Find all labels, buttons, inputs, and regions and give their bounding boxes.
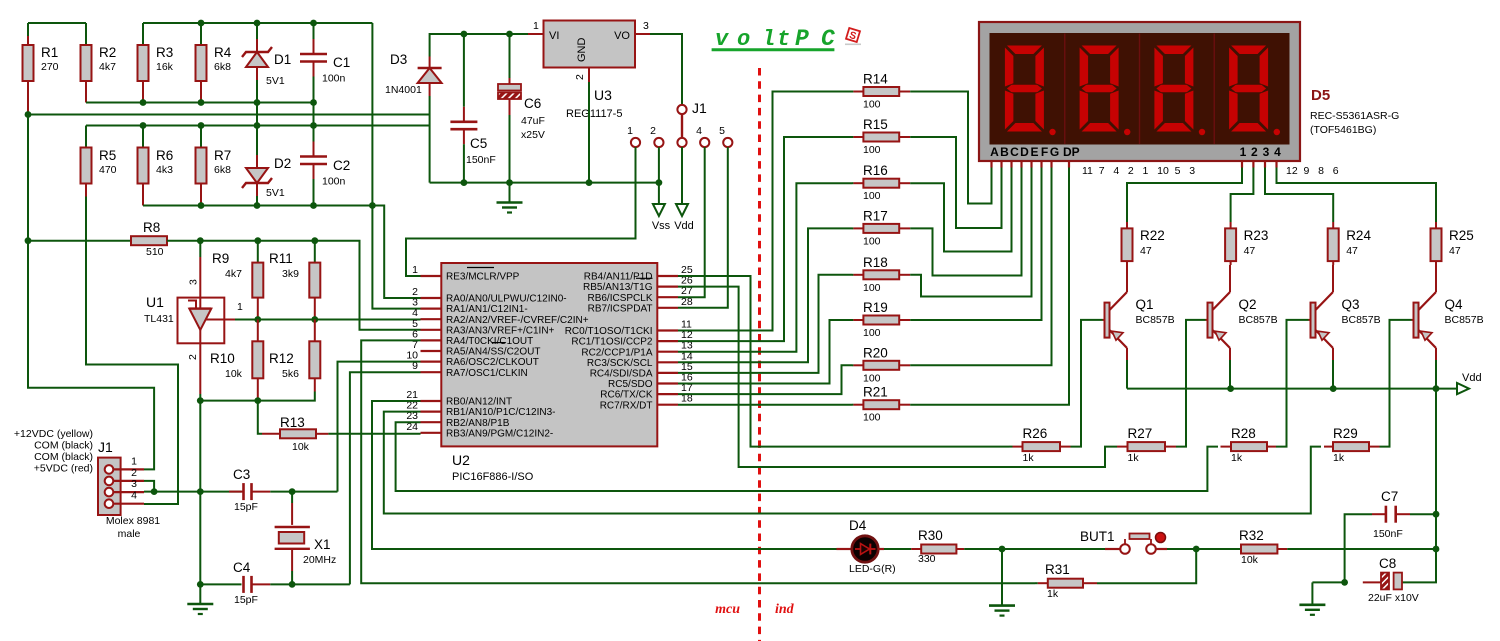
wire: R8 row right to RA3 pin5 <box>167 241 421 330</box>
svg-text:2: 2 <box>1251 145 1258 159</box>
svg-text:+5VDC (red): +5VDC (red) <box>34 463 93 475</box>
svg-text:R9: R9 <box>212 251 229 266</box>
svg-text:100: 100 <box>863 282 881 294</box>
svg-text:RB1/AN10/P1C/C12IN3-: RB1/AN10/P1C/C12IN3- <box>446 407 556 418</box>
svg-text:RB3/AN9/PGM/C12IN2-: RB3/AN9/PGM/C12IN2- <box>446 428 553 439</box>
svg-text:C8: C8 <box>1379 556 1396 571</box>
svg-text:D4: D4 <box>849 518 867 533</box>
node: R10 bottom junction <box>254 397 261 404</box>
resistor R30 <box>908 548 911 550</box>
wire: R27 to Q2 base <box>1176 320 1206 447</box>
wire: R25 bottom to Q4 collector <box>1435 261 1437 265</box>
wire: RC0 pin11 to R14 <box>678 92 852 331</box>
resistor R9 <box>252 263 263 298</box>
svg-text:COM (black): COM (black) <box>34 451 93 463</box>
svg-text:4: 4 <box>1274 145 1281 159</box>
svg-text:RA3/AN3/VREF+/C1IN+: RA3/AN3/VREF+/C1IN+ <box>446 325 555 336</box>
connector J1 ICSP top pin <box>677 105 686 114</box>
connector J1 pin 2 <box>654 138 663 147</box>
svg-text:R27: R27 <box>1128 426 1153 441</box>
svg-text:Vdd: Vdd <box>674 220 694 232</box>
node: COM at U1 anode column <box>197 488 204 495</box>
svg-text:100: 100 <box>863 144 881 156</box>
pin 9 stub U2 left <box>421 371 442 373</box>
svg-text:R17: R17 <box>863 208 888 223</box>
capacitor C8 electrolytic <box>1363 573 1402 590</box>
wire: R2 top lead <box>85 23 87 45</box>
svg-text:Q3: Q3 <box>1342 297 1360 312</box>
resistor R8 <box>131 236 167 245</box>
resistor R18 <box>852 274 853 276</box>
display segment letters ABCDEFG DP <box>990 145 1080 159</box>
logo red emblem <box>845 27 861 44</box>
wire: node-A bus y=125.5 <box>86 125 430 127</box>
transistor Q4 BC857B <box>1412 265 1437 360</box>
wire: RC6 pin17 to R20 <box>678 365 852 394</box>
wire: segment E to R18 <box>910 168 1031 297</box>
resistor R13 <box>262 433 280 435</box>
svg-text:16k: 16k <box>156 61 174 73</box>
wire: Molex pin2 to COM row <box>144 481 154 492</box>
wire: U1 anode column down to COM row <box>199 401 201 492</box>
overline MCLR on pin1 <box>467 267 494 269</box>
node: C5 bottom <box>461 179 468 186</box>
svg-text:DP: DP <box>1063 145 1080 159</box>
connector J1 pin 5 <box>723 138 732 147</box>
wire: R9 bottom lead <box>257 298 259 320</box>
svg-text:male: male <box>118 528 141 540</box>
pin 6 stub U2 left <box>421 339 442 341</box>
svg-text:R16: R16 <box>863 163 888 178</box>
resistor R29 <box>1324 446 1333 448</box>
wire: J1 link (red) <box>681 114 683 138</box>
pin 16 stub U2 right <box>657 382 678 384</box>
node: R3 bottom <box>140 99 147 106</box>
svg-text:100: 100 <box>863 235 881 247</box>
node: R7 top on node-A <box>198 122 205 129</box>
svg-text:C6: C6 <box>524 96 541 111</box>
svg-text:BC857B: BC857B <box>1445 314 1484 326</box>
svg-text:100n: 100n <box>322 73 346 85</box>
pin 2 stub U2 left <box>421 297 442 299</box>
svg-text:20MHz: 20MHz <box>303 554 336 566</box>
wire: node-A row y=102.5 (R2..C1 bottoms) <box>86 102 314 104</box>
resistor R12 <box>309 341 320 378</box>
svg-text:C1: C1 <box>333 55 350 70</box>
svg-text:5k6: 5k6 <box>282 368 299 380</box>
svg-text:47uF: 47uF <box>521 115 545 127</box>
transistor Q1 BC857B <box>1103 265 1128 360</box>
wire: segment C to R16 <box>910 168 1011 252</box>
power Vss arrow <box>653 204 665 216</box>
connector J1 Molex body <box>98 458 121 515</box>
node: U1 cathode at R8 row <box>197 237 204 244</box>
svg-text:R4: R4 <box>214 45 232 60</box>
svg-text:R21: R21 <box>863 385 888 400</box>
svg-text:270: 270 <box>41 61 59 73</box>
svg-text:J1: J1 <box>98 439 113 455</box>
pin 18 stub U2 right <box>657 404 678 406</box>
wire: COM row with C3 <box>144 491 242 493</box>
wire: R11 top lead <box>314 241 316 263</box>
svg-text:RC6/TX/CK: RC6/TX/CK <box>600 390 653 401</box>
svg-text:l: l <box>762 27 775 52</box>
svg-text:4: 4 <box>696 125 702 137</box>
ground symbol bottom left <box>199 584 201 604</box>
svg-text:D3: D3 <box>390 52 407 67</box>
svg-text:R8: R8 <box>143 220 160 235</box>
node: ground tap at R30/BUT1 <box>999 546 1006 553</box>
pin 27 stub U2 right <box>657 296 678 298</box>
wire: RA4 pin6 to R31 row <box>361 340 1035 583</box>
wire: RC4 pin15 to R18 <box>678 275 852 373</box>
svg-text:R20: R20 <box>863 345 888 360</box>
wire: RC5 pin16 to R19 <box>678 320 852 384</box>
svg-text:U2: U2 <box>452 452 470 468</box>
svg-text:1: 1 <box>627 125 633 137</box>
connector J1 pin 4 <box>700 138 709 147</box>
node: C2 bottom on bus <box>310 202 317 209</box>
IC U2 PIC16F886 body <box>441 263 657 446</box>
wire: U1 anode column to C4 row <box>199 492 201 585</box>
svg-text:3k9: 3k9 <box>282 268 299 280</box>
node: X1 bottom junction <box>289 581 296 588</box>
node: +12V at R1 bottom <box>25 111 32 118</box>
pin 3 stub U2 left <box>421 308 442 310</box>
wire: U3 GND to ground row <box>588 82 590 183</box>
overline T1G on pin26 <box>636 277 653 279</box>
pin 13 stub U2 right <box>657 351 678 353</box>
wire: R3 top lead <box>142 23 144 45</box>
svg-text:RC3/SCK/SCL: RC3/SCK/SCL <box>587 358 653 369</box>
svg-text:47: 47 <box>1244 245 1256 257</box>
svg-text:C3: C3 <box>233 467 250 482</box>
wire: digit 2 pin to R23 <box>1231 168 1254 223</box>
svg-text:R18: R18 <box>863 255 888 270</box>
svg-text:RA1/AN1/C12IN1-: RA1/AN1/C12IN1- <box>446 304 528 315</box>
node: D2 bottom on bus <box>254 202 261 209</box>
diode D1 (zener 5V1) <box>256 23 258 39</box>
svg-text:3: 3 <box>1263 145 1270 159</box>
svg-text:TL431: TL431 <box>144 313 174 325</box>
svg-text:C: C <box>821 26 835 52</box>
svg-text:47: 47 <box>1449 245 1461 257</box>
node: COM at pin2 join <box>151 488 158 495</box>
wire: U1 ref row to RA2 pin4 <box>235 319 421 321</box>
svg-text:1k: 1k <box>1128 452 1140 464</box>
wire: R7 top lead <box>200 126 202 148</box>
svg-text:RB7/ICSPDAT: RB7/ICSPDAT <box>588 303 653 314</box>
crystal X1 <box>275 492 310 585</box>
resistor R6 <box>138 148 149 184</box>
svg-text:C: C <box>1010 145 1019 159</box>
svg-text:P: P <box>795 26 809 52</box>
svg-text:R3: R3 <box>156 45 173 60</box>
resistor R32 <box>1277 548 1287 550</box>
svg-text:R10: R10 <box>210 351 235 366</box>
wire: +12V left column x=28 down to Molex pin1 <box>28 115 154 470</box>
node: BUT1/R31/R32 junction <box>1193 546 1200 553</box>
pin 5 stub U2 left <box>421 329 442 331</box>
svg-text:RA2/AN2/VREF-/CVREF/C2IN+: RA2/AN2/VREF-/CVREF/C2IN+ <box>446 315 589 326</box>
wire: R12 bottom lead <box>314 378 316 391</box>
svg-text:1N4001: 1N4001 <box>385 84 422 96</box>
node: C1 bottom <box>310 99 317 106</box>
svg-text:COM (black): COM (black) <box>34 440 93 452</box>
diode D3 1N4001 <box>429 34 431 57</box>
node: Vdd column at R32 row <box>1433 546 1440 553</box>
svg-text:F: F <box>1041 145 1048 159</box>
wire: R24 bottom to Q3 collector <box>1332 261 1334 265</box>
svg-text:BC857B: BC857B <box>1342 314 1381 326</box>
svg-text:t: t <box>777 27 790 52</box>
wire: R2 bottom lead <box>85 81 87 103</box>
wire: C7 right to Vdd column <box>1410 513 1436 515</box>
svg-text:5V1: 5V1 <box>266 75 285 87</box>
resistor R10 <box>252 341 263 378</box>
svg-text:RC0/T1OSO/T1CKI: RC0/T1OSO/T1CKI <box>565 326 653 337</box>
wire: RB1 pin22 to R29 feed row <box>384 412 1321 514</box>
wire: R22 bottom to Q1 collector <box>1126 261 1128 265</box>
node: X1 top junction <box>289 488 296 495</box>
svg-text:o: o <box>737 27 750 52</box>
svg-text:2: 2 <box>574 74 586 80</box>
wire: R7 bottom lead <box>200 184 202 206</box>
resistor R16 <box>852 182 853 184</box>
wire: R5 bottom staircase to Molex pin4 (+5V) <box>85 184 87 197</box>
wire: R13 feed from R10 node <box>258 401 262 434</box>
svg-text:E: E <box>1030 145 1038 159</box>
resistor R15 <box>852 136 853 138</box>
node: R9-R10 junction <box>254 316 261 323</box>
connector J1 Molex pin 2 <box>105 477 114 486</box>
wire: R4 bottom lead <box>200 81 202 103</box>
pin 11 stub U2 right <box>657 329 678 331</box>
resistor R7 <box>196 148 207 184</box>
svg-text:VI: VI <box>549 30 559 42</box>
svg-text:1: 1 <box>412 264 418 276</box>
power Vdd arrow right <box>1457 383 1469 394</box>
op-amp U1 TL431 shunt reference <box>144 241 243 401</box>
svg-text:x25V: x25V <box>521 129 545 141</box>
svg-text:R29: R29 <box>1333 426 1358 441</box>
connector J1 pin 3 <box>677 138 686 147</box>
node: R7 bottom on bus <box>198 202 205 209</box>
node: Vdd column at C7 row <box>1433 511 1440 518</box>
node: R9 top at R8 row <box>254 237 261 244</box>
transistor Q3 BC857B <box>1309 265 1334 360</box>
svg-text:6k8: 6k8 <box>214 61 231 73</box>
svg-text:RB4/AN11/P1D: RB4/AN11/P1D <box>584 272 653 283</box>
svg-text:R13: R13 <box>280 415 305 430</box>
wire: digit 3 pin to R24 <box>1265 168 1333 223</box>
svg-text:REC-S5361ASR-G: REC-S5361ASR-G <box>1310 110 1399 122</box>
svg-text:100: 100 <box>863 99 881 111</box>
wire: junction down to R31 <box>1097 549 1196 583</box>
resistor R5 <box>81 148 92 184</box>
pin 28 stub U2 right <box>657 307 678 309</box>
wire: RC3 pin14 to R17 <box>678 228 852 362</box>
wire: RB0 pin21 to LED D4 row <box>372 401 852 549</box>
wire: R30 to BUT1 <box>964 548 1105 550</box>
svg-text:U1: U1 <box>146 294 164 310</box>
wire: J1 pin3 to Vdd <box>681 147 683 204</box>
wire: RC7 pin18 to R21 row <box>678 404 852 406</box>
wire: R11 bottom lead <box>314 298 316 320</box>
node: C1 top junction <box>310 20 317 27</box>
wire: R9 top lead <box>257 241 259 263</box>
svg-text:Vdd: Vdd <box>1462 372 1482 384</box>
svg-text:100: 100 <box>863 372 881 384</box>
wire: digit 4 pin to R25 <box>1277 168 1437 223</box>
resistor R26 <box>1009 446 1013 448</box>
wire: segment DP to R21 <box>910 168 1069 405</box>
svg-text:100: 100 <box>863 327 881 339</box>
node: Vss column at row <box>656 179 663 186</box>
wire: segment D to R17 <box>910 168 1021 276</box>
wire: R13 row to RB3 pin24 <box>328 433 420 435</box>
svg-text:C2: C2 <box>333 158 350 173</box>
svg-text:330: 330 <box>918 553 936 565</box>
power Vdd arrow <box>676 204 688 216</box>
wire: J1 pin5 to RB7 pin28 <box>678 147 728 308</box>
node: D1 bottom <box>254 99 261 106</box>
wire: R29 to Q4 base <box>1380 320 1412 447</box>
svg-text:12 9 8 6: 12 9 8 6 <box>1286 165 1339 177</box>
connector J1 Molex pin 3 <box>105 488 114 497</box>
svg-text:1: 1 <box>533 20 539 32</box>
svg-text:A: A <box>990 145 999 159</box>
svg-text:X1: X1 <box>314 537 331 552</box>
svg-text:1: 1 <box>237 301 243 313</box>
svg-text:RA5/AN4/SS/C2OUT: RA5/AN4/SS/C2OUT <box>446 347 540 358</box>
display digit 1 segments <box>1005 46 1056 136</box>
wire: R6 bottom lead <box>142 184 144 206</box>
node: C5 top junction <box>461 31 468 38</box>
transistor Q2 BC857B <box>1206 265 1231 360</box>
wire: R6 top lead <box>142 126 144 148</box>
svg-text:47: 47 <box>1346 245 1358 257</box>
node: +12V at R8 row <box>25 237 32 244</box>
pin 21 stub U2 left <box>421 400 442 402</box>
svg-text:15pF: 15pF <box>234 594 258 606</box>
wire: R10 bottom lead <box>257 378 259 400</box>
svg-text:28: 28 <box>681 296 693 308</box>
node: Q3 emitter at Vdd bus <box>1330 385 1337 392</box>
node: R4 top junction <box>198 20 205 27</box>
wire: node-X bottom bus y=205.5 to RA0 pin2 <box>143 206 421 299</box>
resistor R27 <box>1117 446 1128 448</box>
resistor R20 <box>852 364 853 366</box>
svg-text:R11: R11 <box>269 251 293 266</box>
wire: segment B to R15 <box>910 137 1001 228</box>
resistor R1 <box>27 23 29 36</box>
switch BUT1 <box>1105 533 1167 554</box>
svg-text:R7: R7 <box>214 148 231 163</box>
svg-text:1: 1 <box>1240 145 1247 159</box>
capacitor C5 <box>463 34 465 107</box>
svg-text:+12VDC (yellow): +12VDC (yellow) <box>14 428 93 440</box>
pin 14 stub U2 right <box>657 361 678 363</box>
svg-text:1k: 1k <box>1023 452 1035 464</box>
svg-text:R12: R12 <box>269 351 294 366</box>
wire: Vdd bus <box>1127 388 1457 390</box>
wire: R5 top lead <box>85 126 87 148</box>
svg-text:R24: R24 <box>1346 228 1371 243</box>
svg-text:Q1: Q1 <box>1136 297 1154 312</box>
svg-text:R28: R28 <box>1231 426 1256 441</box>
svg-text:3: 3 <box>131 478 137 490</box>
svg-text:R1: R1 <box>41 45 58 60</box>
pin 25 stub U2 right <box>657 275 678 277</box>
wire: D3 anode to +12V bus end / node-A link down to GND row <box>429 96 431 183</box>
wire: ground row under regulator <box>430 182 659 184</box>
svg-text:RA7/OSC1/CLKIN: RA7/OSC1/CLKIN <box>446 368 528 379</box>
svg-text:D5: D5 <box>1311 87 1330 104</box>
svg-text:B: B <box>1000 145 1009 159</box>
wire: RB5 pin26 to R27 feed <box>678 287 1117 467</box>
svg-text:6k8: 6k8 <box>214 164 231 176</box>
svg-text:v: v <box>715 27 729 52</box>
node: C6 top junction <box>506 31 513 38</box>
pin 15 stub U2 right <box>657 372 678 374</box>
capacitor C1 <box>313 23 315 39</box>
wire: RB2 pin23 to R28 feed row <box>396 422 1218 491</box>
svg-text:RC2/CCP1/P1A: RC2/CCP1/P1A <box>581 347 652 358</box>
resistor R14 <box>852 91 853 93</box>
wire: Vdd column from bus down to C8 <box>1402 389 1436 583</box>
svg-text:RE3/MCLR/VPP: RE3/MCLR/VPP <box>446 272 520 283</box>
wire: RA7/OSC1 to crystal bottom row <box>350 372 421 584</box>
node: Q4 emitter at Vdd bus <box>1433 385 1440 392</box>
resistor R22 <box>1126 222 1128 228</box>
svg-text:100: 100 <box>863 190 881 202</box>
svg-text:BC857B: BC857B <box>1136 314 1175 326</box>
connector J1 pin 1 <box>631 138 640 147</box>
svg-text:D2: D2 <box>274 156 291 171</box>
wire: R12 top lead <box>314 320 316 342</box>
wire: VO to ICSP J1 feed <box>650 34 682 105</box>
divider mcu/ind dashed line <box>758 68 761 641</box>
svg-text:Q2: Q2 <box>1239 297 1257 312</box>
svg-text:BC857B: BC857B <box>1239 314 1278 326</box>
svg-text:510: 510 <box>146 246 164 258</box>
pin 12 stub U2 right <box>657 340 678 342</box>
wire: R1 bottom lead to +12V bus <box>27 81 29 115</box>
wire: J1 pin4 to RB6 pin27 <box>678 147 705 297</box>
node: R11 top at R8 row <box>311 237 318 244</box>
pin 17 stub U2 right <box>657 393 678 395</box>
resistor R4 <box>196 45 207 81</box>
svg-text:5V1: 5V1 <box>266 187 285 199</box>
node: link C2 top <box>310 122 317 129</box>
resistor R31 <box>1035 582 1038 584</box>
wire: RA6/OSC2 to crystal top row <box>338 362 421 492</box>
wire: R3 bottom lead <box>142 81 144 103</box>
svg-text:R5: R5 <box>99 148 116 163</box>
svg-text:RC5/SDO: RC5/SDO <box>608 379 653 390</box>
ground symbol at regulator <box>509 183 511 203</box>
wire: link node-A x=257 down to bus <box>256 103 258 126</box>
node: D1 top junction <box>254 20 261 27</box>
resistor R3 <box>138 45 149 81</box>
svg-text:R19: R19 <box>863 300 888 315</box>
svg-text:R6: R6 <box>156 148 173 163</box>
svg-text:Vss: Vss <box>652 220 671 232</box>
wire: node-X top bus right segment R3..C1 <box>143 22 372 24</box>
svg-text:RB0/AN12/INT: RB0/AN12/INT <box>446 397 512 408</box>
pin 23 stub U2 left <box>421 421 442 423</box>
